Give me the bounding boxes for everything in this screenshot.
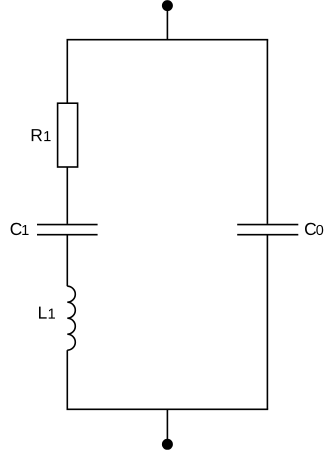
capacitor C1	[37, 225, 98, 235]
wire bottom horizontal bus	[67, 408, 269, 410]
wire left vertical upper	[66, 40, 68, 104]
wire top pin	[166, 6, 168, 40]
resistor R1	[58, 103, 78, 167]
node bottom terminal	[162, 439, 172, 449]
label C0	[305, 223, 323, 235]
wire L1 to bottom	[66, 350, 68, 409]
wire R1 to C1	[66, 167, 68, 224]
label L1	[39, 307, 55, 319]
wire C1 to L1	[66, 235, 68, 286]
capacitor C0	[237, 225, 298, 235]
wire right vertical upper	[266, 40, 268, 224]
inductor L1	[67, 286, 75, 350]
label C1	[11, 223, 29, 235]
wire right vertical lower	[266, 235, 268, 409]
wire top horizontal bus	[67, 39, 269, 41]
wire bottom pin	[166, 409, 168, 444]
label R1	[32, 129, 51, 141]
node top terminal	[162, 1, 172, 11]
